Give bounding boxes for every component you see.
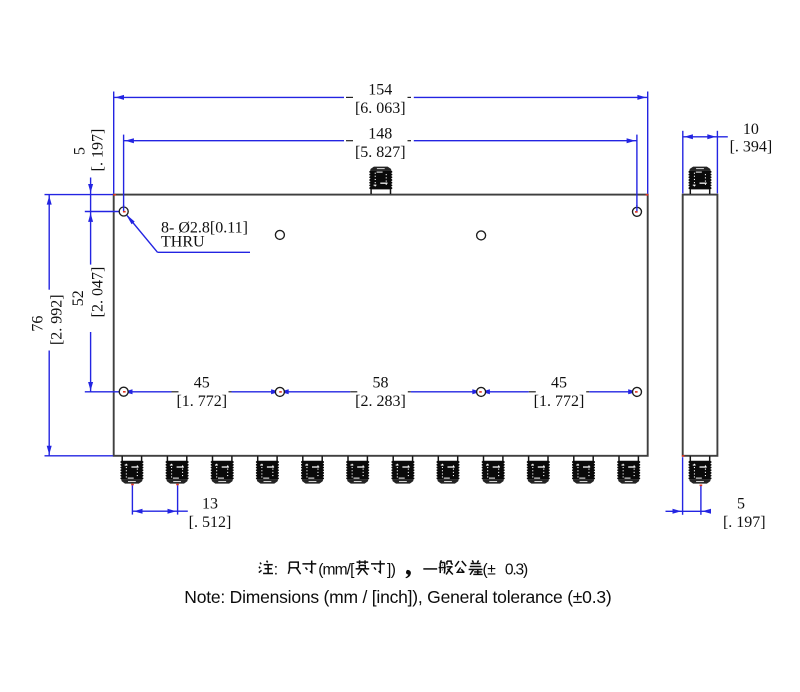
svg-text:10: 10 [743, 121, 759, 138]
output connector 4 (bottom row) [256, 456, 279, 483]
note CJK char 公 [455, 561, 466, 573]
mounting hole bottom-right [633, 387, 642, 396]
svg-text:(±: (± [483, 561, 497, 578]
input connector top (front view) [369, 167, 392, 194]
dimension 148 extension line right [636, 135, 638, 207]
mounting hole bottom-mid-left [275, 387, 284, 396]
svg-text:[5. 827]: [5. 827] [355, 144, 406, 161]
svg-text:[. 512]: [. 512] [189, 514, 232, 531]
output connector 8 (bottom row) [437, 456, 460, 483]
mounting hole upper-mid-left [275, 230, 284, 239]
output connector 2 (bottom row) [166, 456, 189, 483]
svg-text:Note: Dimensions (mm / [inch]): Note: Dimensions (mm / [inch]), General … [184, 587, 611, 607]
dimension 5 top-left: extension line at body top [45, 194, 114, 196]
output connector 6 (bottom row) [346, 456, 369, 483]
dimension 13: dimension line + arrows [132, 510, 187, 512]
dimension 148 extension line tips into holes [123, 205, 125, 212]
output connector 3 (bottom row) [211, 456, 234, 483]
mounting hole bottom-mid-right [477, 387, 486, 396]
output connector 7 (bottom row) [391, 456, 414, 483]
dimension 148 extension line left [123, 135, 125, 206]
defpoint marks (red) [113, 194, 116, 196]
svg-text:0.3): 0.3) [505, 561, 528, 578]
dimension 5 side: extension lines [682, 457, 684, 515]
dimension 5 top-left: extension line at hole center [85, 211, 119, 213]
svg-text:45: 45 [551, 375, 567, 392]
svg-text:(mm/[: (mm/[ [318, 561, 355, 578]
front view body outline [114, 195, 648, 456]
svg-text:[2. 992]: [2. 992] [48, 294, 65, 345]
svg-text:[2. 047]: [2. 047] [89, 267, 106, 318]
note CJK char 尺 [288, 562, 300, 574]
svg-text:]): ]) [387, 561, 396, 578]
dimension 52: dimension line [90, 332, 92, 392]
side view bottom connector [689, 456, 712, 483]
note CJK char 般 [439, 560, 453, 574]
dimension 45-58-45 row: arrows at holes [124, 389, 133, 394]
svg-text:THRU: THRU [161, 234, 205, 251]
note CJK char 注 [259, 561, 273, 574]
note CJK char 一 [423, 568, 437, 570]
svg-text:52: 52 [70, 290, 87, 306]
output connector 11 (bottom row) [572, 456, 595, 483]
side view body outline [683, 195, 718, 456]
svg-text:[6. 063]: [6. 063] [355, 100, 406, 117]
svg-text:13: 13 [202, 496, 218, 513]
hole callout leader line [127, 216, 158, 253]
svg-text:[. 394]: [. 394] [730, 138, 773, 155]
note CJK char 寸 [371, 561, 385, 573]
dimension 10: extension lines [682, 131, 684, 194]
side view top connector [689, 167, 712, 194]
dimension 10: dimension line + arrows [683, 136, 728, 138]
svg-text:45: 45 [194, 375, 210, 392]
note CJK char 寸 [302, 561, 316, 573]
output connector 12 (bottom row) [617, 456, 640, 483]
svg-text:76: 76 [30, 316, 47, 332]
dimension 148 dimension line [124, 140, 344, 142]
svg-text:5: 5 [71, 147, 88, 155]
output connector 10 (bottom row) [527, 456, 550, 483]
output connector 5 (bottom row) [301, 456, 324, 483]
output connector 9 (bottom row) [482, 456, 505, 483]
note CJK char 差 [469, 560, 483, 574]
mounting hole upper-mid-right [477, 231, 486, 240]
dimension 5 top-left: dimension line + arrows [90, 178, 92, 265]
dimension 13: extension lines [131, 485, 133, 514]
dimension 76: dimension line + arrows [48, 195, 50, 290]
note fullwidth comma [406, 570, 411, 578]
mounting hole top-right [633, 207, 642, 216]
note CJK char 英 [356, 560, 370, 574]
svg-text:[2. 283]: [2. 283] [355, 393, 406, 410]
svg-text::: : [274, 561, 278, 578]
svg-text:5: 5 [737, 496, 745, 513]
svg-text:58: 58 [373, 375, 389, 392]
svg-text:148: 148 [368, 126, 392, 143]
svg-text:[. 197]: [. 197] [89, 129, 106, 172]
dimension 76: extension line bottom [45, 455, 114, 457]
svg-text:[1. 772]: [1. 772] [534, 393, 585, 410]
dimension 154 dimension line [114, 96, 344, 98]
svg-text:[1. 772]: [1. 772] [176, 393, 227, 410]
dimension 154 extension line left [113, 92, 115, 194]
svg-text:[. 197]: [. 197] [723, 514, 766, 531]
dimension 154 extension line right [647, 92, 649, 194]
mounting hole top-left [119, 207, 128, 216]
dimension 5 side: dimension line + arrows [666, 510, 711, 512]
dimension 45-58-45 row: measure line segments [85, 391, 172, 393]
svg-text:154: 154 [368, 81, 392, 98]
mounting hole bottom-left [119, 387, 128, 396]
output connector 1 (bottom row) [120, 456, 143, 483]
